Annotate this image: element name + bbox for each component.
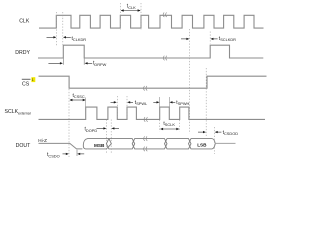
break marker on DRDY baseline [163,56,167,61]
CS rise dashed line [205,68,207,137]
svg-text:tSPWH: tSPWH [176,100,189,106]
tCSSC double arrow [70,99,85,101]
wire DOUT hi-z after LSB [216,142,236,144]
svg-text:tDOPD: tDOPD [85,127,98,133]
tDOPD arrows [97,127,105,129]
bubble 2 [106,139,134,149]
svg-text:tSCLKDR: tSCLKDR [219,36,236,42]
tSCLKDR dashed line at SCLK edge [189,29,191,134]
tDRPW arrows [48,62,60,64]
svg-text:CS: CS [22,81,30,87]
tSCLKDR arrows [181,38,188,40]
tCSDOD dashed line at hi-z [214,127,216,154]
wire CLK waveform [39,15,264,28]
svg-text:tCLKDR: tCLKDR [72,36,87,42]
svg-text:LSB: LSB [197,143,207,148]
svg-text:Hi-Z: Hi-Z [38,138,47,143]
svg-text:tDRPW: tDRPW [93,61,107,67]
CS fall dashed line [68,89,70,157]
tSPWH arrows [153,101,157,103]
svg-text:CLK: CLK [19,19,30,25]
svg-text:tSPWL: tSPWL [135,100,148,106]
svg-text:DRDY: DRDY [15,50,30,56]
svg-text:MSB: MSB [94,143,105,148]
bubble LSB [189,139,216,149]
tCLK annotation dashed line right [140,3,142,30]
tDRPW edge bars [62,59,64,65]
break marker on CLK [163,12,167,17]
wire CS waveform [39,76,267,88]
tCLKDR arrows [47,36,55,38]
tSCLK double arrow [161,128,179,130]
tCLKDR dashed line at DRDY edge [62,12,64,45]
tSPWH edge extensions [159,97,161,107]
tSCLK dashed lines below [159,120,161,132]
bubble MSB [83,139,111,149]
wire DOUT hi-z line and transition to driven low [39,143,83,149]
svg-text:tSCLK: tSCLK [163,121,175,127]
svg-text:tCSDOD: tCSDOD [223,130,239,136]
tCSDO arrows [63,153,67,155]
tCLKDR dashed line at CLK edge [56,12,58,45]
wire SCLK waveform [39,107,266,119]
tCSDO bar [76,150,78,156]
svg-text:DOUT: DOUT [16,143,32,149]
break marker on SCLK baseline [144,117,148,122]
wire DRDY waveform [38,45,263,58]
bubble 4 [165,139,192,149]
bubble 3 with break marks [132,139,167,149]
tSCLKDR dashed line at DRDY edge [209,32,211,44]
svg-text:tCLK: tCLK [127,4,136,10]
svg-text:tCSSC: tCSSC [73,93,85,99]
tCLK annotation dashed line left [119,3,121,30]
SCLK rise edge extension above [85,98,87,108]
tSPWL dashed lines [116,96,118,119]
tCLK double arrow [121,10,140,12]
tCSDOD arrows [198,131,204,133]
break marker on CS low line [144,86,148,91]
svg-text:tCSDO: tCSDO [47,152,60,158]
svg-text:1: 1 [32,78,34,82]
tSPWL arrows [111,101,116,103]
tDOPD dashed lines [106,120,108,155]
note marker (1) yellow [31,77,35,82]
